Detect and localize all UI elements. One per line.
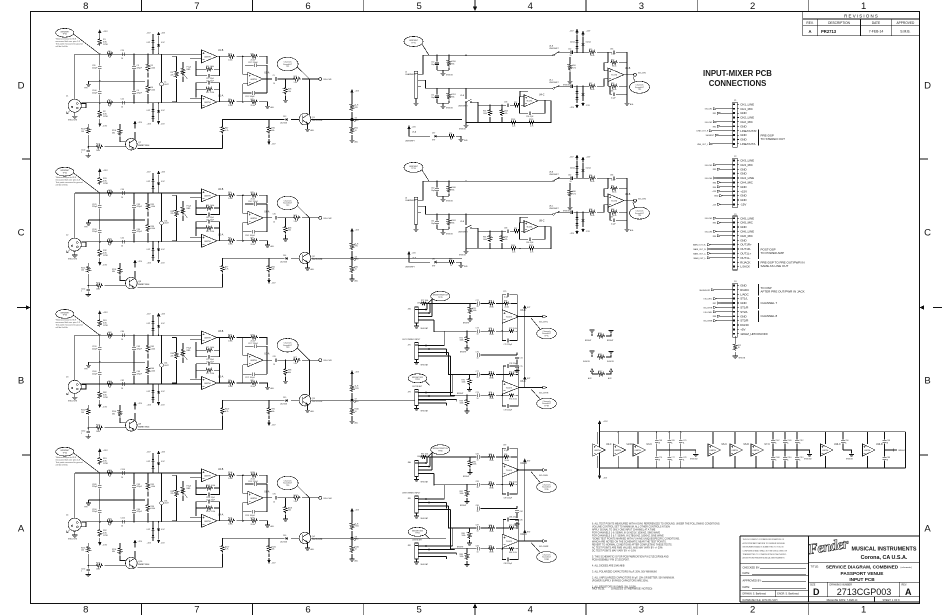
svg-text:C5: C5 <box>273 75 275 77</box>
capacitor C113 bypass <box>795 450 803 468</box>
transistor Q4 2SC2412K (ch4) <box>299 498 323 548</box>
svg-text:1.0k: 1.0k <box>294 221 297 223</box>
jack J8R right (ch8) <box>408 540 457 567</box>
svg-text:TP82: TP82 <box>415 533 420 535</box>
svg-text:20.0k: 20.0k <box>612 192 616 194</box>
capacitor C132 1uF (ch2) <box>81 286 90 295</box>
svg-text:D: D <box>924 81 931 92</box>
capacitor C53 series right2 (ch5) <box>566 83 585 88</box>
svg-text:R85: R85 <box>713 223 716 225</box>
zone letters left <box>18 81 25 535</box>
resistor R58 10k shunt (ch2) <box>283 217 291 241</box>
capacitor C33 470pF (ch2) <box>132 193 143 220</box>
svg-text:100k: 100k <box>483 239 487 241</box>
wire rail2 (ch6) <box>429 214 553 215</box>
power rail +15V arrow (ch3) <box>98 310 108 318</box>
ground right mid (ch5) <box>563 81 573 87</box>
svg-text:SHLD/CHS: SHLD/CHS <box>68 259 78 261</box>
capacitor C77 series3 (ch7) <box>476 371 488 379</box>
svg-text:-15V: -15V <box>103 545 108 547</box>
svg-text:+15V: +15V <box>138 261 143 263</box>
title block frame <box>740 536 920 602</box>
svg-text:RELEASE DATE: 7-FEB-14: RELEASE DATE: 7-FEB-14 <box>827 599 858 602</box>
svg-text:R53: R53 <box>611 83 614 85</box>
capacitor C190 220pF (ch4) <box>92 500 102 522</box>
svg-text:008TH: 008TH <box>864 450 871 452</box>
wire to R88 (P4) <box>713 315 733 318</box>
svg-text:MMBT3904: MMBT3904 <box>138 564 150 566</box>
svg-text:10: 10 <box>273 502 275 504</box>
title block disclaimer text <box>743 538 788 560</box>
svg-text:C106 47pF: C106 47pF <box>206 499 216 501</box>
wire rail2 (ch2) <box>81 241 190 242</box>
capacitor C192 1uF (ch4) <box>81 566 90 575</box>
capacitor C68 series (ch6) <box>478 228 513 233</box>
resistor R110 20.0k (ch4) <box>243 518 268 526</box>
svg-text:TL074: TL074 <box>506 541 513 543</box>
svg-text:100k: 100k <box>462 535 466 537</box>
ground Q3 (ch3) <box>305 410 314 413</box>
level callout TP4 oval (ch4) <box>277 476 309 498</box>
diode pair clamp bottom (ch5) <box>570 86 591 110</box>
capacitor C94 470pF (ch4) <box>132 500 143 522</box>
capacitor C99 220pF (ch1) <box>92 54 102 81</box>
svg-text:BRIGHT: BRIGHT <box>463 323 469 325</box>
wire rail1 (ch4) <box>75 472 190 473</box>
svg-text:R100: R100 <box>251 334 255 336</box>
svg-text:C80: C80 <box>121 331 124 333</box>
svg-text:TL074: TL074 <box>526 101 533 103</box>
capacitor C74 series4 (ch7) <box>476 392 488 400</box>
ground input bias (ch2) <box>86 295 91 297</box>
title text <box>811 564 913 582</box>
capacitor C17 47pF feedback (ch1) <box>196 69 220 80</box>
svg-text:PAD: PAD <box>187 487 191 490</box>
shunt resistor R718 100k (ch7) <box>460 395 470 414</box>
power rail +15V arrow (ch1) <box>98 29 108 37</box>
svg-text:10: 10 <box>570 55 572 57</box>
svg-text:S.M.B.: S.M.B. <box>900 29 910 33</box>
capacitor C64 470pF (ch3) <box>132 362 143 384</box>
output callout oval (ch5) <box>630 77 650 94</box>
resistor R70 20.0k feedback (ch2) <box>243 192 267 203</box>
svg-text:GND: GND <box>740 301 746 305</box>
pin 5 CH4_LINE (P2) <box>737 176 754 180</box>
capacitor C20 10 (ch1) <box>121 50 125 60</box>
svg-text:10: 10 <box>121 339 123 341</box>
svg-text:AGL: AGL <box>271 106 275 109</box>
svg-text:+15V: +15V <box>712 191 717 193</box>
svg-text:CH7 RIGHT: CH7 RIGHT <box>412 386 423 388</box>
svg-text:2SC2412K: 2SC2412K <box>312 401 323 403</box>
svg-text:R88: R88 <box>713 316 716 318</box>
svg-text:008TH: 008TH <box>204 102 211 104</box>
ground pair top (ch6) <box>437 196 453 203</box>
resistor R842 20.0k (ch8) <box>488 454 503 466</box>
resistor R95 20.0k (ch5) <box>585 49 608 57</box>
diode pair D7/D8 clamp bottom (ch2) <box>147 242 166 265</box>
svg-text:R67: R67 <box>514 228 517 230</box>
ground micro (ch5) <box>458 139 468 142</box>
resistor R146 10 LED (ch4) <box>350 539 359 552</box>
op-amp U3-B L (ch7) <box>502 310 526 323</box>
shunt resistor R806 100k (ch8) <box>457 527 472 548</box>
svg-text:1.00k: 1.00k <box>151 89 156 91</box>
pin 12 120HZ_HPF/ON/OFF (P4) <box>737 332 768 336</box>
op-amp U8-C (ch6) <box>520 217 545 233</box>
op-amp U3-C R (ch7) <box>502 381 526 394</box>
svg-text:10: 10 <box>355 269 357 271</box>
svg-text:C53: C53 <box>568 83 571 85</box>
resistor R746 20.0k (ch7) <box>488 321 503 337</box>
svg-text:TP63: TP63 <box>63 315 68 317</box>
wire opamp out (ch5) <box>538 100 551 123</box>
svg-text:1.00k: 1.00k <box>228 198 232 200</box>
svg-text:ST1/R: ST1/R <box>740 306 748 310</box>
svg-text:SHGO/B2: SHGO/B2 <box>804 459 812 461</box>
diode D13 series (ch1) <box>248 116 299 125</box>
resistor R106 100k (ch1) <box>88 144 125 152</box>
capacitor C112 10 (ch4) <box>121 518 125 528</box>
capacitor C60 10pF (ch6) <box>431 181 439 196</box>
resistor R47 1.0k out (ch2) <box>286 215 319 223</box>
svg-text:7: 7 <box>194 1 199 12</box>
svg-text:APPROVED: APPROVED <box>897 21 915 25</box>
svg-text:SHGO/B: SHGO/B <box>446 75 453 77</box>
svg-text:A PROPRIETARY NATURE TO FENDER: A PROPRIETARY NATURE TO FENDER MUSICAL <box>743 542 785 545</box>
svg-text:SHGO/B: SHGO/B <box>846 459 853 461</box>
svg-text:10: 10 <box>477 531 479 533</box>
level callout TP3 oval (ch3) <box>277 338 309 360</box>
svg-text:008TH: 008TH <box>732 450 739 452</box>
svg-text:R40: R40 <box>251 53 254 55</box>
resistor R67 10k series (ch6) <box>513 228 524 233</box>
wire stage2 out (ch1) <box>263 65 272 93</box>
ground input bias (ch1) <box>86 156 91 158</box>
svg-text:008TH: 008TH <box>204 521 211 523</box>
test point callout TP64 (ch4) <box>56 447 100 473</box>
feedback R828 20.0k (ch8) <box>502 454 517 470</box>
svg-text:20.0k: 20.0k <box>505 460 509 462</box>
svg-text:U4-C: U4-C <box>539 95 545 97</box>
pin 10 GND (P2) <box>737 198 746 202</box>
svg-text:1k: 1k <box>450 139 452 141</box>
svg-text:10: 10 <box>477 306 479 308</box>
shunt resistor R751 100k (ch7) <box>460 331 470 354</box>
svg-text:R83: R83 <box>713 169 716 171</box>
op-amp U4-B (ch4) <box>202 469 224 482</box>
wire to SHGND/T (P1) <box>706 134 733 137</box>
resistor R103 1.00k (ch4) <box>217 472 243 480</box>
pin 7 ST2/L (P4) <box>737 310 748 314</box>
svg-text:R98: R98 <box>589 209 592 211</box>
output terminal IG5-CH4 (ch4) <box>319 496 333 500</box>
svg-text:TP4: TP4 <box>286 485 289 487</box>
svg-text:GND: GND <box>740 133 746 137</box>
svg-text:1.00k: 1.00k <box>228 340 232 342</box>
svg-text:TL074: TL074 <box>506 317 513 319</box>
svg-text:D16: D16 <box>283 535 286 537</box>
svg-text:1: 1 <box>81 291 82 293</box>
op-amp U3-B (ch3) <box>202 331 224 344</box>
svg-text:R73: R73 <box>228 334 231 336</box>
ground mid (ch1) <box>84 80 145 89</box>
capacitor C77 47pF feedback (ch3) <box>196 350 220 361</box>
resistor R846 20.0k (ch8) <box>488 474 503 490</box>
svg-text:C113: C113 <box>799 457 803 459</box>
svg-text:GND: GND <box>740 238 746 242</box>
svg-text:47: 47 <box>109 57 111 59</box>
svg-text:C74: C74 <box>476 392 479 394</box>
svg-text:D(ch)1: D(ch)1 <box>570 168 575 170</box>
feedback loop R top (ch8) <box>503 525 519 541</box>
svg-text:20.0k: 20.0k <box>590 215 594 217</box>
ext supply arrow L (ch7) <box>519 305 531 317</box>
svg-text:CH5_MIC: CH5_MIC <box>740 221 753 225</box>
svg-text:2.2k: 2.2k <box>512 251 515 253</box>
switch U4-B line/shift top (ch5) <box>549 46 566 56</box>
svg-text:008TH: 008TH <box>710 450 717 452</box>
resistor R95 1.00k (ch4) <box>146 473 155 497</box>
svg-text:.0047: .0047 <box>164 223 169 225</box>
resistor R856 20.0k (ch8) <box>488 545 503 554</box>
pin 9 GND (P1) <box>737 138 746 142</box>
diode D57 (ch5) <box>432 133 448 142</box>
resistor R65 (ch6) <box>448 259 461 267</box>
svg-text:R86: R86 <box>713 236 716 238</box>
svg-text:220pF: 220pF <box>92 511 98 513</box>
switch U8-B line/shift top (ch6) <box>549 172 566 182</box>
svg-text:U3-C: U3-C <box>647 444 653 446</box>
wire opamp out (ch6) <box>538 226 551 248</box>
svg-text:R33: R33 <box>108 190 111 192</box>
svg-text:C89 220pF: C89 220pF <box>504 498 512 500</box>
wire rail2 (ch3) <box>81 383 190 384</box>
zone numbers top <box>83 1 866 12</box>
svg-text:OUT1L+: OUT1L+ <box>740 252 751 256</box>
resistor R107 4.7k (ch3) <box>221 400 230 430</box>
bracket note TO DSP (P4) <box>759 284 805 296</box>
svg-text:SHGO/B: SHGO/B <box>446 234 453 236</box>
svg-text:D: D <box>18 81 25 92</box>
resistor R36 10k (ch1) <box>267 119 275 134</box>
resistor R39 22k (ch2) <box>171 195 179 241</box>
resistor R63 47 (ch3) <box>106 332 113 340</box>
svg-text:20.0k: 20.0k <box>489 377 493 379</box>
pin 1 CH5_LINE (P3) <box>737 216 754 220</box>
svg-text:68k: 68k <box>112 413 115 415</box>
svg-text:R624: R624 <box>511 245 515 247</box>
svg-text:2SC2412K: 2SC2412K <box>312 259 323 261</box>
pin 4 CH2_LINE (P1) <box>737 116 754 120</box>
svg-text:R63: R63 <box>611 209 614 211</box>
svg-text:20.0k: 20.0k <box>251 105 255 107</box>
capacitor C91 0.0047 (ch4) <box>160 473 169 522</box>
buffer chain rails <box>600 431 906 469</box>
wire to IG5-CH4 (P2) <box>705 177 733 180</box>
buffer op-amp U10-C <box>821 432 841 468</box>
op-amp U4-A (ch4) <box>202 513 224 527</box>
output callout L oval (ch8) <box>531 472 556 493</box>
capacitor C58 series (ch5) <box>478 102 513 107</box>
svg-text:CH2_LINE: CH2_LINE <box>740 116 754 120</box>
svg-text:C68: C68 <box>659 440 662 442</box>
XLR connector J4 (ch4) <box>66 473 86 541</box>
svg-text:1.00k: 1.00k <box>151 206 156 208</box>
pin 9 GND (P2) <box>737 194 746 198</box>
svg-text:100: 100 <box>81 412 84 414</box>
capacitor C76 47pF feedback (ch3) <box>196 362 220 371</box>
buffer op-amp U7-C <box>751 432 770 468</box>
wire opamp inputs (ch2) <box>190 193 202 242</box>
svg-text:+15V: +15V <box>138 541 143 543</box>
ground pair bottom (ch5) <box>437 103 453 110</box>
resistor R93 47 (ch4) <box>106 470 113 478</box>
transistor Q9 MMBT3904 (ch3) <box>126 420 151 432</box>
svg-text:C78 220pF: C78 220pF <box>504 409 512 411</box>
svg-text:C86: C86 <box>610 91 613 93</box>
svg-text:R95: R95 <box>589 49 592 51</box>
diode pair D15/D16 clamp bottom (ch4) <box>147 522 166 545</box>
capacitor C65 10 out (ch3) <box>273 356 286 366</box>
svg-text:CHANNEL 5: CHANNEL 5 <box>405 73 416 76</box>
capacitor C201 100pF (ch4) <box>243 510 264 517</box>
capacitor C160 220pF (ch3) <box>92 362 102 384</box>
resistor R65 1.00k (ch3) <box>146 335 155 359</box>
feedback R794 bottom (ch7) <box>502 388 519 401</box>
svg-text:C78: C78 <box>683 457 686 459</box>
svg-text:10: 10 <box>121 197 123 199</box>
svg-text:R65: R65 <box>449 259 452 261</box>
svg-text:GND: GND <box>740 138 746 142</box>
svg-text:SHEET: 1 OF 8: SHEET: 1 OF 8 <box>882 599 900 602</box>
power -15V arrow Q (ch1) <box>267 135 276 146</box>
svg-text:CH4_LINE: CH4_LINE <box>740 176 754 180</box>
svg-text:+15V: +15V <box>147 263 152 265</box>
svg-text:VOLUME CONTROL SET TO MINIMUM,: VOLUME CONTROL SET TO MINIMUM, ALL OTHER… <box>592 526 670 529</box>
svg-text:U2-C: U2-C <box>606 444 612 446</box>
capacitor C100 220pF (ch1) <box>92 81 102 103</box>
resistor R72 1.00k feedback (ch3) <box>196 364 220 383</box>
diode pair D5/D6 clamp top (ch2) <box>147 171 166 194</box>
resistor R94 47 (ch4) <box>106 519 113 527</box>
jack J7S stereo (ch7) <box>414 343 451 367</box>
svg-text:C141 100pF: C141 100pF <box>245 235 256 237</box>
capacitor C66 feedback (ch6) <box>520 223 546 245</box>
svg-text:P4: P4 <box>734 281 736 283</box>
svg-text:IG5-CH8R: IG5-CH8R <box>539 546 549 548</box>
feedback capacitor C89 0.1uF (ch8) <box>502 445 517 457</box>
diode pair D1/D2 clamp top (ch1) <box>147 32 166 54</box>
svg-text:2: 2 <box>750 605 755 615</box>
power -15V arrow Q (ch4) <box>267 554 276 565</box>
wire rail1 (ch3) <box>75 335 190 336</box>
ground mid (ch3) <box>84 362 145 371</box>
svg-text:SHLD/CHS: SHLD/CHS <box>68 120 78 122</box>
capacitor C107 bypass <box>771 432 779 450</box>
resistor R162 100 (ch3) <box>81 405 90 428</box>
capacitor C86 mid link (ch8) <box>476 505 523 526</box>
svg-text:R52: R52 <box>611 60 614 62</box>
wire stage2 junction (ch2) <box>242 195 248 242</box>
svg-text:SHGO/B: SHGO/B <box>446 108 453 110</box>
svg-text:+15V: +15V <box>161 314 166 316</box>
svg-text:GND: GND <box>740 167 746 171</box>
notes block <box>592 523 720 591</box>
capacitor C68 bypass <box>655 432 662 450</box>
svg-text:DATE:: DATE: <box>743 571 751 575</box>
svg-text:TL074: TL074 <box>506 388 513 390</box>
svg-text:10: 10 <box>477 358 479 360</box>
svg-text:SHGO/AT: SHGO/AT <box>421 327 428 330</box>
feedback R792 (ch7) <box>502 317 518 334</box>
feedback cap C88b 220pF (ch8) <box>502 549 518 565</box>
capacitor C109 bypass <box>783 432 791 450</box>
svg-text:CH8 STEREO INPUT: CH8 STEREO INPUT <box>402 493 421 495</box>
svg-text:UDZ15B: UDZ15B <box>280 123 288 125</box>
svg-text:4: 4 <box>528 1 533 12</box>
svg-text:R166: R166 <box>96 425 100 427</box>
svg-text:UDZ15B: UDZ15B <box>280 261 288 263</box>
svg-text:U3-A: U3-A <box>218 376 224 379</box>
svg-text:R87: R87 <box>713 303 716 305</box>
svg-text:2. ALL UNPOLARIZED CAPACITORS: 2. ALL UNPOLARIZED CAPACITORS IN µF, 10%… <box>592 577 675 580</box>
svg-text:C52: C52 <box>568 49 571 51</box>
diode D67 (ch6) <box>432 259 448 268</box>
svg-text:+15V: +15V <box>586 157 591 159</box>
svg-text:TO STEREO OUT: TO STEREO OUT <box>761 137 786 141</box>
svg-text:100: 100 <box>81 131 84 133</box>
size / drawing number / rev <box>810 583 912 597</box>
resistor R44 1.00k (ch2) <box>217 238 243 246</box>
svg-text:6: 6 <box>305 605 310 615</box>
wire to R64 (P2) <box>713 186 733 189</box>
resistor R92 6.8k (ch4) <box>98 522 108 537</box>
svg-text:LINE_OUT_R: LINE_OUT_R <box>697 131 709 133</box>
svg-text:100k: 100k <box>473 464 477 466</box>
LED D8 signal (ch4) <box>350 531 359 541</box>
svg-text:C62: C62 <box>568 175 571 177</box>
wire stage2 out (ch2) <box>263 204 272 232</box>
capacitor C76 mid link (ch7) <box>476 352 523 373</box>
capacitor C80 10 (ch3) <box>121 331 125 341</box>
bracket note POST-DSP (P3) <box>759 243 784 259</box>
output terminal IG5-CH6 (ch6) <box>624 199 647 203</box>
wire rail1 (ch6) <box>429 180 553 181</box>
svg-text:6. ALL TEST POINTS MEASURED WI: 6. ALL TEST POINTS MEASURED WITH A DVM, … <box>592 523 720 526</box>
svg-text:20.0k: 20.0k <box>489 531 493 533</box>
svg-text:TP1: TP1 <box>286 66 289 68</box>
pin 4 CH6_LINE (P3) <box>737 230 754 234</box>
resistor R53 feedback bottom (ch5) <box>608 75 627 92</box>
svg-text:+15V: +15V <box>355 372 360 374</box>
resistor R97 20.0k (ch5) <box>585 79 608 92</box>
svg-text:CH3_LINE: CH3_LINE <box>740 159 754 163</box>
resistor R756 20.0k (ch7) <box>488 392 503 401</box>
svg-text:IG5-CH2: IG5-CH2 <box>323 218 332 220</box>
power rail +15V arrow (ch4) <box>98 448 108 456</box>
capacitor C57 0.1uF bottom (ch5) <box>610 86 627 100</box>
title block checked/date <box>743 565 807 575</box>
diode D14 series (ch2) <box>248 255 299 264</box>
svg-text:D14: D14 <box>283 255 286 257</box>
svg-text:R106: R106 <box>96 144 100 146</box>
svg-text:C74: C74 <box>520 357 523 359</box>
svg-text:20k: 20k <box>452 63 455 65</box>
svg-text:47: 47 <box>109 196 111 198</box>
svg-text:C88: C88 <box>887 457 890 459</box>
svg-text:D57: D57 <box>432 133 435 135</box>
